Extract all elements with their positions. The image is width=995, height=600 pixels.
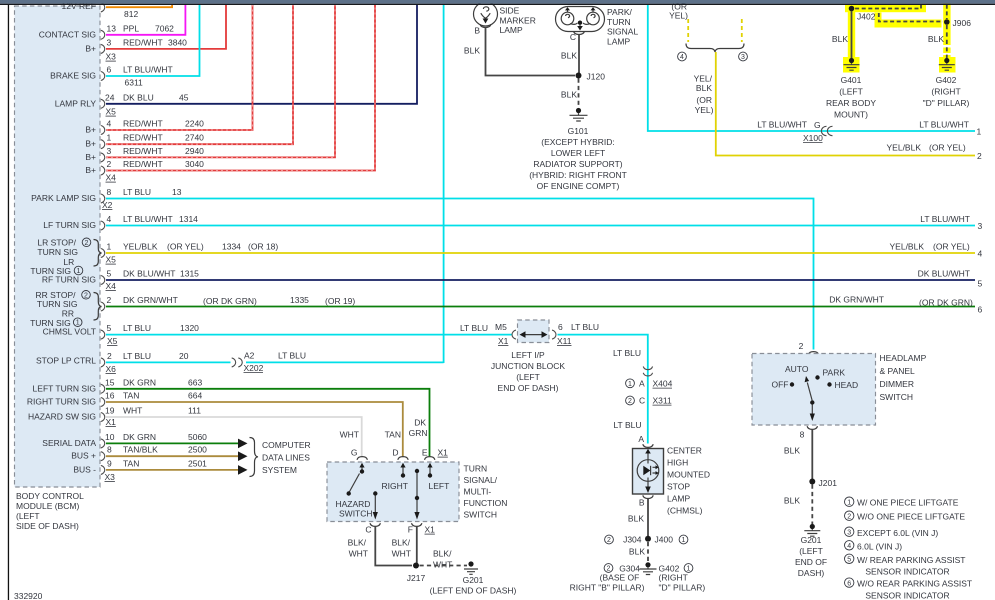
svg-text:2: 2 <box>799 341 804 351</box>
svg-text:YEL): YEL) <box>695 105 714 115</box>
BLK wire from off-page crossing to J906 <box>879 13 943 22</box>
dashed BLK wire J120 to ground G101 <box>561 79 579 108</box>
svg-text:1: 1 <box>682 537 686 544</box>
svg-text:HEADLAMP: HEADLAMP <box>880 353 927 363</box>
svg-text:G: G <box>351 448 358 458</box>
svg-text:W/O ONE PIECE LIFTGATE: W/O ONE PIECE LIFTGATE <box>857 512 965 522</box>
svg-text:MODULE (BCM): MODULE (BCM) <box>16 501 79 511</box>
CHMSL pin A label <box>613 420 653 447</box>
BLK/WHT wire pin F to J217 <box>416 527 418 566</box>
svg-text:24: 24 <box>105 92 115 102</box>
YEL/BLK wire 2 to right edge <box>694 52 982 161</box>
svg-text:LT BLU: LT BLU <box>613 348 641 358</box>
BCM pin 8 BUS + / TAN/BLK wire 2500 <box>71 445 247 461</box>
svg-text:SIGNAL/: SIGNAL/ <box>464 475 498 485</box>
svg-text:DASH): DASH) <box>798 568 825 578</box>
BLK/WHT wire pin C to J217 <box>375 527 412 566</box>
inline connector A2 X202 <box>232 351 264 374</box>
inline connector X311 pin C <box>626 373 672 406</box>
svg-text:4: 4 <box>107 119 112 129</box>
svg-text:END OF DASH): END OF DASH) <box>498 383 559 393</box>
svg-text:EXCEPT 6.0L (VIN J): EXCEPT 6.0L (VIN J) <box>857 528 938 538</box>
svg-text:TAN: TAN <box>123 391 139 401</box>
svg-text:X1: X1 <box>498 336 509 346</box>
BCM pin 9 BUS - / TAN wire 2501 <box>73 458 247 474</box>
svg-text:LAMP: LAMP <box>500 25 523 35</box>
svg-text:DK BLU: DK BLU <box>123 92 154 102</box>
svg-text:PARK LAMP SIG: PARK LAMP SIG <box>31 193 96 203</box>
G201 left caption <box>430 575 517 596</box>
svg-text:YEL/BLK: YEL/BLK <box>890 242 925 252</box>
svg-text:C: C <box>639 396 645 406</box>
BCM pin 3 B+ / RED/WHT wire 3840 <box>85 5 226 54</box>
svg-text:DATA LINES: DATA LINES <box>262 453 310 463</box>
svg-text:(LEFT: (LEFT <box>516 372 540 382</box>
svg-text:SERIAL DATA: SERIAL DATA <box>42 438 96 448</box>
svg-text:SWITCH: SWITCH <box>339 509 373 519</box>
svg-text:& PANEL: & PANEL <box>880 366 916 376</box>
svg-text:MULTI-: MULTI- <box>464 487 492 497</box>
svg-text:HAZARD SW SIG: HAZARD SW SIG <box>28 412 96 422</box>
svg-text:2940: 2940 <box>185 146 204 156</box>
multifunction switch pin G <box>351 448 368 460</box>
svg-text:6: 6 <box>847 580 851 587</box>
svg-text:10: 10 <box>105 432 115 442</box>
brace joining YEL wires <box>686 44 744 53</box>
BCM pin 2 B+ / RED/WHT wire 3040 <box>85 5 375 175</box>
svg-text:X5: X5 <box>106 107 117 117</box>
svg-text:SIDE: SIDE <box>500 6 520 16</box>
svg-text:1335: 1335 <box>290 295 309 305</box>
svg-text:W/ ONE PIECE LIFTGATE: W/ ONE PIECE LIFTGATE <box>857 498 959 508</box>
svg-text:COMPUTER: COMPUTER <box>262 440 311 450</box>
left I/P junction block box <box>518 320 550 343</box>
svg-text:CONTACT SIG: CONTACT SIG <box>39 30 96 40</box>
svg-text:BLK: BLK <box>832 34 848 44</box>
footnote 6 <box>845 578 973 600</box>
svg-text:BUS -: BUS - <box>73 464 96 474</box>
svg-text:G201: G201 <box>463 575 484 585</box>
svg-text:LT BLU/WHT: LT BLU/WHT <box>920 214 970 224</box>
svg-text:TURN: TURN <box>464 464 488 474</box>
svg-text:BLK/: BLK/ <box>392 538 411 548</box>
ground G201 right <box>804 524 820 536</box>
dashed BLK wire J906 to G402 <box>928 25 947 58</box>
svg-text:LEFT: LEFT <box>429 481 450 491</box>
BCM pins LR STOP/TURN SIG group labels <box>30 237 101 276</box>
svg-text:TAN: TAN <box>123 458 139 468</box>
ground G304 / G402 <box>604 562 693 574</box>
svg-text:5: 5 <box>107 323 112 333</box>
svg-text:2: 2 <box>107 295 112 305</box>
svg-text:BLK: BLK <box>784 496 800 506</box>
svg-text:2: 2 <box>107 159 112 169</box>
svg-text:5: 5 <box>847 557 851 564</box>
yellow circuit trace highlight <box>843 0 956 73</box>
svg-text:X3: X3 <box>106 52 117 62</box>
BLK wire CHMSL to J400 <box>628 499 648 539</box>
svg-text:J120: J120 <box>587 72 606 82</box>
svg-text:B+: B+ <box>85 125 96 135</box>
svg-text:DK GRN/WHT: DK GRN/WHT <box>123 295 178 305</box>
svg-text:(LEFT: (LEFT <box>16 511 40 521</box>
junction J201 <box>809 478 837 488</box>
BLK wire from off-page to J402 <box>855 5 921 9</box>
BCM pin 2 STOP LP CTRL / LT BLU wire 20 <box>36 351 231 367</box>
svg-text:LAMP: LAMP <box>607 36 630 46</box>
svg-text:X100: X100 <box>803 133 823 143</box>
CHMSL center high mounted stop lamp <box>633 449 664 495</box>
svg-text:J906: J906 <box>953 18 972 28</box>
svg-text:X3: X3 <box>105 472 116 482</box>
svg-text:LT BLU/WHT: LT BLU/WHT <box>123 65 173 75</box>
svg-text:W/O REAR PARKING ASSIST: W/O REAR PARKING ASSIST <box>857 579 972 589</box>
BLK/WHT labels under switch <box>348 538 453 570</box>
svg-text:CHMSL VOLT: CHMSL VOLT <box>43 326 96 336</box>
svg-text:663: 663 <box>188 377 202 387</box>
junction block exit pin 6 X11 <box>552 322 599 346</box>
svg-text:(OR 19): (OR 19) <box>325 296 355 306</box>
BCM pin 4 LF TURN SIG / LT BLU/WHT wire 1314 <box>43 214 982 231</box>
footnote 4 marker <box>678 52 687 61</box>
svg-text:20: 20 <box>179 351 189 361</box>
svg-text:OF ENGINE COMPT): OF ENGINE COMPT) <box>537 181 620 191</box>
footnote 2 <box>845 511 966 522</box>
svg-text:YEL/BLK: YEL/BLK <box>123 242 158 252</box>
inline connector X404 pin A <box>626 367 673 389</box>
footnote 3 marker <box>739 52 748 61</box>
svg-text:TURN: TURN <box>607 17 631 27</box>
svg-text:1: 1 <box>107 133 112 143</box>
switch arm to pin C <box>373 491 378 519</box>
svg-text:LT BLU: LT BLU <box>460 323 488 333</box>
svg-text:X311: X311 <box>653 396 672 406</box>
svg-text:3040: 3040 <box>185 159 204 169</box>
svg-text:J402: J402 <box>857 12 876 22</box>
svg-text:DK GRN/WHT: DK GRN/WHT <box>829 295 884 305</box>
svg-text:LT BLU: LT BLU <box>123 323 151 333</box>
svg-text:LT BLU/WHT: LT BLU/WHT <box>919 120 969 130</box>
svg-text:LAMP RLY: LAMP RLY <box>55 98 97 108</box>
svg-text:YEL): YEL) <box>669 11 688 21</box>
headlamp switch caption <box>880 353 927 402</box>
svg-text:A2: A2 <box>244 351 255 361</box>
svg-text:MOUNT): MOUNT) <box>834 110 868 120</box>
svg-text:X11: X11 <box>557 336 572 346</box>
ground G401 <box>844 58 860 70</box>
svg-text:3: 3 <box>107 146 112 156</box>
BCM pin 8 PARK LAMP SIG / LT BLU wire 13 to headlamp switch <box>31 187 813 350</box>
svg-text:X5: X5 <box>107 336 118 346</box>
svg-text:LT BLU: LT BLU <box>613 420 641 430</box>
svg-text:B: B <box>474 26 480 36</box>
svg-text:G402: G402 <box>936 75 957 85</box>
inline connector G X100 <box>803 126 833 143</box>
svg-text:4: 4 <box>847 543 851 550</box>
LT BLU/WHT wire 1 from off-page to X100 <box>648 5 982 137</box>
switch contacts at E <box>427 463 432 478</box>
svg-text:PPL: PPL <box>123 24 139 34</box>
junction J217 <box>407 563 426 584</box>
svg-text:(LEFT: (LEFT <box>799 546 823 556</box>
svg-text:(LEFT: (LEFT <box>839 87 863 97</box>
svg-text:BRAKE SIG: BRAKE SIG <box>50 71 96 81</box>
junction J906 <box>944 18 971 28</box>
title bar <box>0 0 995 4</box>
svg-text:B+: B+ <box>85 165 96 175</box>
svg-text:LT BLU/WHT: LT BLU/WHT <box>757 120 807 130</box>
svg-text:M5: M5 <box>495 322 507 332</box>
svg-text:WHT: WHT <box>340 430 359 440</box>
svg-text:LT BLU: LT BLU <box>278 351 306 361</box>
side marker lamp pin B cup <box>480 24 491 27</box>
G101 caption <box>529 126 627 191</box>
svg-text:W/ REAR PARKING ASSIST: W/ REAR PARKING ASSIST <box>857 555 965 565</box>
svg-text:(OR: (OR <box>696 95 712 105</box>
svg-text:2740: 2740 <box>185 133 204 143</box>
svg-text:BLK/: BLK/ <box>433 549 452 559</box>
BCM body control module box <box>15 6 101 487</box>
svg-text:GRN: GRN <box>409 428 428 438</box>
svg-text:8: 8 <box>800 430 805 440</box>
svg-text:DIMMER: DIMMER <box>880 379 914 389</box>
dashed BLK/WHT wire J217 to G201 <box>420 565 468 567</box>
svg-text:1: 1 <box>977 127 982 137</box>
svg-text:F: F <box>408 525 413 535</box>
svg-text:6: 6 <box>558 322 563 332</box>
svg-text:3: 3 <box>847 529 851 536</box>
svg-text:2: 2 <box>84 292 88 299</box>
svg-text:BLK: BLK <box>696 83 712 93</box>
svg-text:1: 1 <box>687 566 691 573</box>
svg-text:13: 13 <box>107 24 117 34</box>
computer data lines system label <box>262 440 311 475</box>
svg-text:RADIATOR SUPPORT): RADIATOR SUPPORT) <box>533 159 622 169</box>
svg-text:MARKER: MARKER <box>500 15 536 25</box>
svg-text:REAR BODY: REAR BODY <box>826 98 876 108</box>
junction J120 <box>576 72 606 82</box>
svg-text:SIDE OF DASH): SIDE OF DASH) <box>16 521 79 531</box>
svg-text:9: 9 <box>107 458 112 468</box>
CHMSL caption <box>667 446 710 516</box>
svg-text:LT BLU: LT BLU <box>123 351 151 361</box>
svg-text:8: 8 <box>107 445 112 455</box>
park/turn signal lamp <box>556 7 639 47</box>
svg-text:LAMP: LAMP <box>667 494 690 504</box>
G304/G402 captions <box>570 573 706 593</box>
svg-text:END OF: END OF <box>795 557 827 567</box>
svg-text:DK: DK <box>414 418 426 428</box>
junction J402 <box>849 6 876 22</box>
CHMSL pin B cup <box>639 495 653 507</box>
svg-text:LEFT TURN SIG: LEFT TURN SIG <box>33 383 96 393</box>
svg-text:G401: G401 <box>841 75 862 85</box>
svg-text:1: 1 <box>847 499 851 506</box>
svg-text:BUS +: BUS + <box>71 451 96 461</box>
svg-text:SWITCH: SWITCH <box>880 392 914 402</box>
BCM pin 12V REF / orange wire 812 <box>62 1 173 19</box>
svg-text:1: 1 <box>628 381 632 388</box>
G401 caption <box>826 75 876 120</box>
footnote 3 <box>845 527 939 538</box>
BCM pin 5 CHMSL VOLT / LT BLU wire 1320 <box>43 323 512 339</box>
BCM pin 2 RR / DK GRN/WHT wire 1335 <box>101 295 983 315</box>
svg-text:A: A <box>639 379 645 389</box>
svg-text:E: E <box>422 448 428 458</box>
svg-text:DK BLU/WHT: DK BLU/WHT <box>123 269 175 279</box>
switch inner labels <box>336 481 450 519</box>
svg-text:MOUNTED: MOUNTED <box>667 470 710 480</box>
multifunction switch pin E + X1 <box>422 448 448 460</box>
svg-text:WHT: WHT <box>433 560 452 570</box>
BCM pin 6 BRAKE SIG / LT BLU/WHT wire 6311 <box>50 5 199 88</box>
svg-text:SYSTEM: SYSTEM <box>262 465 297 475</box>
svg-text:2500: 2500 <box>188 445 207 455</box>
computer data lines brace <box>250 438 259 477</box>
BCM pin 1 B+ / RED/WHT wire 2740 <box>85 5 293 149</box>
svg-text:3840: 3840 <box>168 38 187 48</box>
svg-text:G: G <box>814 120 821 130</box>
svg-text:BODY CONTROL: BODY CONTROL <box>16 491 84 501</box>
svg-text:LT BLU: LT BLU <box>123 187 151 197</box>
footnote 1 <box>845 497 959 508</box>
svg-text:J400: J400 <box>655 535 674 545</box>
YEL circuit from off-page (OR YEL) <box>669 2 742 43</box>
svg-text:DK GRN: DK GRN <box>123 432 156 442</box>
svg-text:C: C <box>365 525 371 535</box>
svg-text:X404: X404 <box>653 379 673 389</box>
svg-text:WHT: WHT <box>123 406 142 416</box>
headlamp switch pin 8 <box>800 426 818 439</box>
dashed BLK wire J201 to G201 <box>784 485 812 525</box>
svg-text:X1: X1 <box>106 417 117 427</box>
inline junction block connector M5 X1 <box>460 322 516 346</box>
dashed BLK wire J400 to ground <box>629 542 648 563</box>
ground G402 right pillar <box>939 58 955 70</box>
svg-text:B: B <box>639 498 645 508</box>
ground G101 <box>570 108 588 121</box>
svg-text:(RIGHT: (RIGHT <box>931 87 960 97</box>
svg-text:X1: X1 <box>438 448 449 458</box>
svg-text:G101: G101 <box>568 126 589 136</box>
svg-text:RED/WHT: RED/WHT <box>123 133 163 143</box>
svg-text:X202: X202 <box>244 363 264 373</box>
svg-text:PARK/: PARK/ <box>607 7 633 17</box>
switch contacts at G (hazard) <box>347 463 365 496</box>
svg-text:16: 16 <box>105 391 115 401</box>
svg-text:5: 5 <box>107 269 112 279</box>
svg-text:B+: B+ <box>85 44 96 54</box>
svg-text:6.0L (VIN J): 6.0L (VIN J) <box>857 541 902 551</box>
svg-text:2: 2 <box>628 398 632 405</box>
park/turn lamp pin C cup <box>574 31 585 34</box>
multifunction switch pin C <box>365 523 380 534</box>
BCM pin 24 LAMP RLY / DK BLU wire 45 <box>55 5 417 109</box>
svg-text:RED/WHT: RED/WHT <box>123 38 163 48</box>
headlamp switch contacts <box>772 364 859 421</box>
svg-text:(EXCEPT HYBRID:: (EXCEPT HYBRID: <box>541 137 615 147</box>
svg-text:(OR DK GRN): (OR DK GRN) <box>203 296 257 306</box>
svg-text:BLK: BLK <box>784 446 800 456</box>
svg-text:BLK: BLK <box>464 46 480 56</box>
svg-text:3: 3 <box>741 54 745 61</box>
LT BLU stop lamp feed vertical to off-page top <box>443 5 445 363</box>
svg-text:LT BLU: LT BLU <box>571 322 599 332</box>
svg-text:45: 45 <box>179 92 189 102</box>
BCM pin 5 RF TURN SIG / DK BLU/WHT wire 1315 <box>42 269 983 289</box>
svg-text:(RIGHT: (RIGHT <box>659 573 688 583</box>
svg-text:RF TURN SIG: RF TURN SIG <box>42 275 96 285</box>
svg-text:"D" PILLAR): "D" PILLAR) <box>923 98 970 108</box>
svg-text:TURN SIG: TURN SIG <box>37 247 78 257</box>
svg-text:YEL/: YEL/ <box>694 74 713 84</box>
page frame left border <box>8 5 9 600</box>
svg-text:HEAD: HEAD <box>835 380 859 390</box>
svg-text:BLK/: BLK/ <box>348 538 367 548</box>
svg-text:FUNCTION: FUNCTION <box>464 498 508 508</box>
junction block caption <box>491 350 565 393</box>
svg-text:332920: 332920 <box>14 591 43 600</box>
svg-text:(BASE OF: (BASE OF <box>600 573 640 583</box>
svg-text:G201: G201 <box>801 535 822 545</box>
svg-text:LT BLU/WHT: LT BLU/WHT <box>123 214 173 224</box>
svg-text:HIGH: HIGH <box>667 458 688 468</box>
G402 caption <box>923 75 970 108</box>
BCM pin 1 LR / YEL/BLK wire 1334 <box>101 242 983 259</box>
svg-text:D: D <box>392 448 398 458</box>
svg-text:WHT: WHT <box>392 549 411 559</box>
ground G201 left <box>464 561 478 574</box>
side marker lamp bulb <box>474 2 536 35</box>
svg-text:RIGHT "B" PILLAR): RIGHT "B" PILLAR) <box>570 583 645 593</box>
svg-text:(OR YEL): (OR YEL) <box>933 242 970 252</box>
multifunction switch pin D <box>392 448 408 460</box>
svg-text:812: 812 <box>124 9 138 19</box>
headlamp and panel dimmer switch box <box>752 354 876 426</box>
svg-text:HAZARD: HAZARD <box>336 499 371 509</box>
svg-text:RIGHT: RIGHT <box>382 481 408 491</box>
svg-text:2: 2 <box>107 351 112 361</box>
svg-text:OFF: OFF <box>772 380 789 390</box>
BCM pin 10 SERIAL DATA / DK GRN wire 5060 <box>42 432 247 448</box>
svg-text:(HYBRID: RIGHT FRONT: (HYBRID: RIGHT FRONT <box>529 170 627 180</box>
svg-text:6: 6 <box>978 305 983 315</box>
svg-text:A: A <box>638 434 644 444</box>
BLK wire switch to J201 <box>784 430 812 482</box>
svg-text:2: 2 <box>977 151 982 161</box>
svg-text:1334: 1334 <box>222 242 241 252</box>
svg-text:YEL/BLK: YEL/BLK <box>887 143 922 153</box>
svg-text:3: 3 <box>978 221 983 231</box>
G201 right caption <box>795 535 827 578</box>
svg-text:X2: X2 <box>102 200 113 210</box>
BCM pin 16 RIGHT TURN SIG / TAN wire 664 <box>27 391 403 457</box>
BCM pin 3 B+ / RED/WHT wire 2940 <box>85 5 335 162</box>
svg-text:RIGHT TURN SIG: RIGHT TURN SIG <box>27 397 96 407</box>
svg-text:2501: 2501 <box>188 458 207 468</box>
svg-text:RED/WHT: RED/WHT <box>123 146 163 156</box>
svg-text:CENTER: CENTER <box>667 446 702 456</box>
svg-text:19: 19 <box>105 406 115 416</box>
BLK wire from park/turn lamp to J120 <box>561 35 579 76</box>
svg-text:AUTO: AUTO <box>785 364 809 374</box>
svg-text:7062: 7062 <box>155 24 174 34</box>
svg-text:BLK: BLK <box>928 34 944 44</box>
svg-text:STOP LP CTRL: STOP LP CTRL <box>36 356 96 366</box>
svg-text:2240: 2240 <box>185 119 204 129</box>
svg-text:2: 2 <box>85 240 89 247</box>
svg-text:SENSOR INDICATOR: SENSOR INDICATOR <box>865 567 949 577</box>
